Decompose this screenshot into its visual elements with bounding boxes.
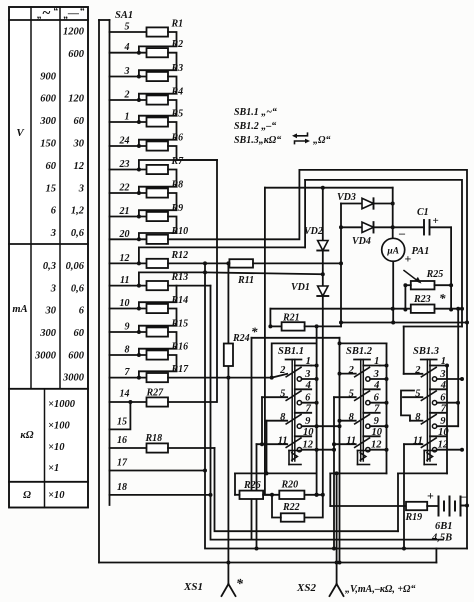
svg-text:0,3: 0,3 (43, 261, 56, 272)
svg-text:11: 11 (120, 275, 129, 286)
svg-text:+: + (427, 489, 434, 503)
svg-text:кΩ: кΩ (20, 430, 33, 441)
svg-text:21: 21 (119, 206, 130, 217)
svg-text:4: 4 (305, 380, 311, 391)
svg-text:1: 1 (374, 356, 379, 367)
svg-text:—: — (67, 8, 79, 20)
svg-text:0,6: 0,6 (71, 228, 85, 239)
svg-text:30: 30 (73, 139, 85, 150)
svg-text:R18: R18 (145, 433, 163, 444)
svg-text:R19: R19 (405, 512, 423, 523)
svg-text:6: 6 (79, 306, 85, 317)
svg-text:4: 4 (440, 380, 446, 391)
svg-text:20: 20 (119, 229, 130, 240)
svg-text:SB1.1: SB1.1 (278, 346, 304, 357)
svg-text:µA: µA (386, 247, 399, 257)
svg-text:2: 2 (279, 365, 286, 376)
svg-text:7: 7 (441, 403, 447, 414)
svg-text:×10: ×10 (48, 442, 65, 453)
svg-text:SB1.3„кΩ“: SB1.3„кΩ“ (234, 135, 281, 146)
svg-text:900: 900 (40, 71, 57, 82)
svg-text:VD3: VD3 (337, 192, 356, 203)
svg-text:SB1.3: SB1.3 (413, 346, 439, 357)
svg-text:R17: R17 (171, 364, 190, 375)
svg-text:R23: R23 (413, 294, 431, 305)
svg-text:10: 10 (303, 427, 314, 438)
svg-text:R26: R26 (243, 480, 261, 491)
svg-text:6В1: 6В1 (435, 521, 453, 532)
svg-text:*: * (439, 291, 446, 306)
svg-text:SB1.2: SB1.2 (346, 346, 373, 357)
svg-text:22: 22 (119, 183, 130, 194)
svg-text:R1: R1 (171, 19, 184, 30)
svg-text:R12: R12 (171, 250, 189, 261)
svg-text:150: 150 (40, 139, 57, 150)
svg-text:3: 3 (124, 66, 130, 77)
svg-text:+: + (433, 215, 439, 227)
svg-text:R15: R15 (171, 319, 189, 330)
svg-text:18: 18 (117, 482, 127, 493)
svg-text:60: 60 (74, 328, 85, 339)
svg-text:R11: R11 (237, 275, 254, 286)
svg-text:×1000: ×1000 (48, 399, 76, 410)
svg-text:3: 3 (78, 183, 84, 194)
svg-text:3: 3 (50, 283, 56, 294)
svg-text:„Ω“: „Ω“ (313, 135, 330, 146)
svg-text:10: 10 (371, 427, 382, 438)
svg-text:2: 2 (124, 90, 130, 101)
svg-text:9: 9 (125, 322, 130, 333)
svg-text:1200: 1200 (63, 27, 85, 38)
svg-text:15: 15 (117, 417, 127, 428)
svg-text:*: * (236, 577, 244, 592)
svg-text:7: 7 (306, 403, 312, 414)
svg-text:×1: ×1 (48, 463, 59, 474)
svg-text:16: 16 (117, 435, 127, 446)
svg-text:300: 300 (39, 328, 57, 339)
svg-text:12: 12 (120, 253, 130, 264)
svg-text:R21: R21 (282, 313, 300, 324)
svg-text:3000: 3000 (62, 373, 85, 384)
svg-text:×100: ×100 (48, 421, 70, 432)
svg-text:mA: mA (12, 304, 27, 315)
svg-text:600: 600 (68, 350, 85, 361)
svg-text:R22: R22 (282, 502, 300, 513)
svg-text:3000: 3000 (34, 350, 57, 361)
svg-text:R13: R13 (171, 272, 189, 283)
svg-text:30: 30 (45, 306, 57, 317)
svg-text:1,2: 1,2 (71, 206, 85, 217)
svg-text:“: “ (53, 7, 58, 18)
svg-text:XS1: XS1 (183, 581, 203, 593)
svg-text:600: 600 (68, 49, 85, 60)
svg-text:1: 1 (306, 356, 311, 367)
svg-text:15: 15 (46, 183, 57, 194)
svg-text:R20: R20 (281, 480, 299, 491)
svg-text:×10: ×10 (48, 490, 65, 501)
svg-text:–: – (460, 489, 468, 503)
svg-text:4: 4 (373, 380, 379, 391)
svg-text:23: 23 (119, 159, 130, 170)
svg-text:R14: R14 (171, 295, 189, 306)
svg-text:C1: C1 (417, 207, 429, 218)
svg-text:4,5В: 4,5В (431, 533, 452, 544)
svg-text:~: ~ (42, 6, 51, 22)
svg-text:PA1: PA1 (412, 246, 430, 257)
svg-text:VD4: VD4 (352, 236, 371, 247)
svg-text:R25: R25 (426, 269, 444, 280)
svg-text:R24: R24 (232, 333, 250, 344)
svg-text:14: 14 (120, 389, 130, 400)
svg-text:„V,mA,–кΩ, +Ω“: „V,mA,–кΩ, +Ω“ (345, 584, 416, 595)
svg-text:0,6: 0,6 (71, 283, 85, 294)
svg-text:SB1.1 „~“: SB1.1 „~“ (234, 107, 277, 118)
svg-text:60: 60 (46, 161, 57, 172)
svg-text:VD2: VD2 (304, 226, 323, 237)
svg-text:17: 17 (117, 458, 128, 469)
svg-text:VD1: VD1 (291, 282, 310, 293)
svg-text:8: 8 (125, 345, 130, 356)
svg-text:*: * (251, 324, 258, 339)
svg-text:R10: R10 (171, 226, 189, 237)
svg-text:5: 5 (125, 22, 130, 33)
svg-text:4: 4 (124, 42, 130, 53)
svg-text:24: 24 (119, 136, 130, 147)
svg-text:+: + (405, 252, 412, 266)
svg-text:10: 10 (120, 298, 130, 309)
svg-text:SB1.2 „–“: SB1.2 „–“ (234, 121, 276, 132)
svg-text:60: 60 (74, 116, 85, 127)
svg-text:6: 6 (51, 206, 57, 217)
svg-text:3: 3 (50, 228, 56, 239)
svg-text:0,06: 0,06 (66, 261, 85, 272)
svg-text:SA1: SA1 (115, 10, 133, 21)
svg-text:R16: R16 (171, 342, 189, 353)
svg-text:Ω: Ω (23, 490, 31, 501)
svg-text:“: “ (80, 7, 85, 18)
svg-text:XS2: XS2 (296, 582, 316, 594)
svg-text:600: 600 (40, 94, 57, 105)
svg-text:12: 12 (74, 161, 85, 172)
svg-text:1: 1 (125, 112, 130, 123)
svg-text:300: 300 (39, 116, 57, 127)
svg-text:7: 7 (125, 367, 131, 378)
svg-text:120: 120 (68, 94, 85, 105)
svg-text:7: 7 (374, 403, 380, 414)
